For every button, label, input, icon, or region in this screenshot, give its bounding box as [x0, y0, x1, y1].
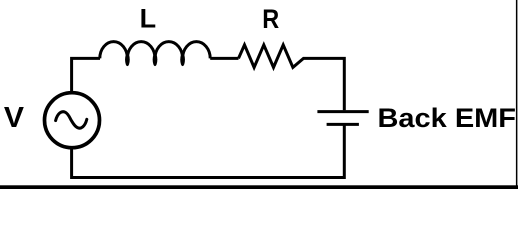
svg-text:L: L: [140, 3, 157, 33]
svg-text:R: R: [262, 4, 279, 34]
svg-text:V: V: [4, 102, 24, 134]
svg-text:Back EMF: Back EMF: [378, 103, 517, 133]
